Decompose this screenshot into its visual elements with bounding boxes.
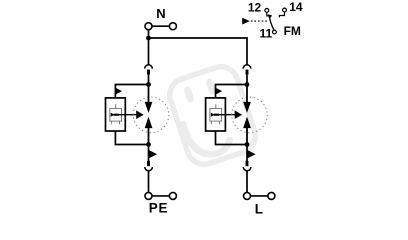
wire: [148, 145, 150, 162]
trigger element left (inner box with terminals): [110, 104, 122, 124]
disconnect device left top: [116, 88, 122, 95]
wire N bus (horizontal): [149, 37, 248, 39]
wire to L terminal: [246, 171, 248, 193]
wire to PE terminal: [148, 171, 150, 193]
plug-in connector right top (socket arc + pin): [243, 65, 251, 69]
terminal PE: [145, 192, 152, 199]
wire main line upper segment left: [148, 85, 150, 104]
wire trigger box bottom to main line left: [115, 131, 148, 145]
disconnect device left bottom: [149, 150, 157, 158]
trigger circuit box left (outer): [106, 98, 126, 131]
svg-text:11: 11: [260, 27, 273, 41]
wire trigger box bottom to main line right: [216, 131, 248, 145]
trigger arrow right (from element to spark gap): [211, 110, 242, 119]
wire junction to trigger box (right): [216, 85, 248, 99]
svg-text:FM: FM: [284, 24, 301, 38]
disconnect device right top: [216, 88, 222, 95]
junction right bottom: [245, 142, 250, 147]
plug-in connector right bottom (pin + socket cup): [246, 161, 249, 166]
svg-text:N: N: [156, 6, 165, 21]
trigger element right (inner box with terminals): [210, 104, 222, 124]
terminal N: [145, 6, 176, 30]
wire: [246, 75, 248, 85]
wire right branch top: [246, 38, 248, 65]
wire main line lower segment right: [246, 127, 248, 145]
svg-text:12: 12: [248, 0, 262, 14]
junction N bus: [146, 36, 151, 41]
wire main line lower segment left: [148, 127, 150, 145]
plug-in connector left bottom (pin + socket cup): [147, 161, 150, 166]
terminal L: [244, 192, 251, 199]
changeover lever: [268, 14, 274, 30]
svg-text:PE: PE: [149, 201, 169, 216]
spark gap right (two electrodes): [243, 102, 251, 113]
wire main line upper segment right: [246, 85, 248, 104]
trigger signal arrow FM: [242, 18, 250, 25]
contact 12: [248, 0, 269, 16]
wire junction to trigger box (left): [115, 85, 148, 99]
junction right top: [245, 82, 250, 87]
junction left top: [146, 82, 151, 87]
spark gap left (two electrodes): [145, 102, 153, 113]
svg-text:L: L: [255, 202, 263, 217]
wire left branch top: [148, 38, 150, 65]
trigger arrow left (from element to spark gap): [111, 110, 144, 119]
plug-in connector left top (socket arc + pin): [145, 65, 153, 69]
spark gap right enclosure (dashed circle): [232, 97, 268, 133]
wire N terminal to bus: [148, 30, 150, 38]
wire: [246, 145, 248, 162]
junction left bottom: [146, 142, 151, 147]
wire: [148, 75, 150, 85]
disconnect device right bottom: [248, 150, 256, 158]
svg-text:14: 14: [289, 0, 303, 14]
dashed mechanical link: [251, 20, 268, 22]
contact 11 (common): [260, 27, 277, 41]
spark gap left enclosure (dashed circle): [133, 97, 169, 133]
contact 14: [279, 0, 302, 17]
trigger circuit box right (outer): [206, 98, 226, 131]
